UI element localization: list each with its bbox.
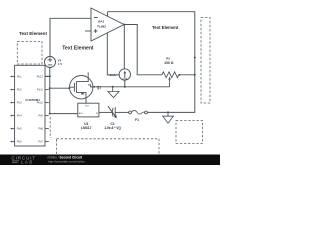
svg-text:Pb9: Pb9 xyxy=(38,114,43,118)
IC CUSTOM1 box xyxy=(15,65,45,146)
wire top rail from op-amp V+ to right side xyxy=(108,12,195,113)
fuse F1 xyxy=(129,111,148,114)
transistor Q1 xyxy=(69,76,93,99)
svg-text:CUSTOM1: CUSTOM1 xyxy=(25,98,40,102)
node rail dot 1 xyxy=(194,57,196,59)
wire U1 right to C1 xyxy=(99,111,113,113)
svg-text:F1: F1 xyxy=(135,118,139,122)
svg-text:Pb6: Pb6 xyxy=(17,140,22,144)
wire Q1 drain stub above xyxy=(87,72,89,75)
wire op-amp V- pin down to current source left xyxy=(107,33,119,75)
svg-text:Pb4: Pb4 xyxy=(17,114,22,118)
svg-text:Pb5: Pb5 xyxy=(17,127,22,131)
svg-text:Pb12: Pb12 xyxy=(37,75,44,79)
wire C1 to F1 xyxy=(115,111,129,113)
voltage source V1 xyxy=(45,57,56,68)
svg-text:1mA: 1mA xyxy=(122,77,127,80)
svg-text:LAB: LAB xyxy=(21,160,34,165)
dashed box D2 tall right xyxy=(201,18,210,104)
ground GND1 xyxy=(108,87,119,98)
svg-text:OUT: OUT xyxy=(85,105,90,107)
svg-text:100 Ω: 100 Ω xyxy=(164,61,174,65)
wire mid horizontal net y=88 xyxy=(93,86,170,88)
wire Q1 source down to U1 top xyxy=(85,98,87,103)
wire R1 right to vertical rail xyxy=(179,74,195,76)
IC CUSTOM1 pin labels xyxy=(17,75,44,144)
IC CUSTOM1 pin tick dots xyxy=(11,76,13,143)
IC CUSTOM1 pins xyxy=(11,77,49,142)
svg-text:R1: R1 xyxy=(166,57,170,61)
svg-text:OA1: OA1 xyxy=(98,20,105,24)
svg-text:Q1: Q1 xyxy=(97,86,101,90)
wire current source bottom xyxy=(124,80,126,87)
footer bar xyxy=(0,155,220,166)
wire op-amp output down to current source I1 top xyxy=(123,25,125,69)
junction dots on bus xyxy=(49,75,51,77)
svg-text:Text Element: Text Element xyxy=(152,25,179,30)
wire CUSTOM1 right bus vertical xyxy=(49,67,51,114)
svg-text:Pb8: Pb8 xyxy=(38,127,43,131)
wire top-left corner from V1 up to op-amp minus input xyxy=(50,18,91,56)
svg-text:Pb2: Pb2 xyxy=(17,88,22,92)
svg-text:Pb11: Pb11 xyxy=(37,88,44,92)
ground GND2 xyxy=(163,112,174,123)
wire U1 left (ADJ) to bus xyxy=(50,113,78,115)
junction dots on y=88 net xyxy=(112,86,114,88)
svg-text:TL082: TL082 xyxy=(97,25,106,29)
dashed box D3 bottom right xyxy=(176,121,203,144)
current source I1 xyxy=(119,69,130,80)
svg-text:1 V: 1 V xyxy=(58,62,63,66)
wire pin row 1 to bus xyxy=(45,75,50,77)
wire gate of Q1 from pin row 2 xyxy=(50,87,70,89)
potentiometer R1 xyxy=(162,72,179,87)
op-amp OA1 xyxy=(85,8,124,41)
svg-text:1mA: 1mA xyxy=(110,73,116,77)
regulator U1 LM317 box xyxy=(78,103,99,117)
dashed line D5 xyxy=(49,117,51,138)
svg-text:1.0e-6 * V(): 1.0e-6 * V() xyxy=(104,126,120,130)
capacitor C1 xyxy=(108,106,116,117)
wire op-amp output to feedback corner xyxy=(124,25,162,75)
svg-text:Pb7: Pb7 xyxy=(38,140,43,144)
svg-text:Text Element: Text Element xyxy=(19,31,47,36)
svg-text:Text Element: Text Element xyxy=(62,45,94,51)
svg-text:Pb3: Pb3 xyxy=(17,101,22,105)
node output junction dot xyxy=(123,24,125,26)
svg-text:Pb1: Pb1 xyxy=(17,75,22,79)
dashed box D4 bottom wide xyxy=(57,139,160,163)
node GND2 junction xyxy=(167,111,169,113)
svg-text:LM317: LM317 xyxy=(81,126,91,130)
node rail dot 2 (R1) xyxy=(194,74,196,76)
svg-text:ADJ: ADJ xyxy=(79,112,83,115)
svg-text:http://circuitlab.com/c/urbty: http://circuitlab.com/c/urbty xyxy=(48,160,85,164)
dashed box D1 top-left xyxy=(17,41,42,64)
